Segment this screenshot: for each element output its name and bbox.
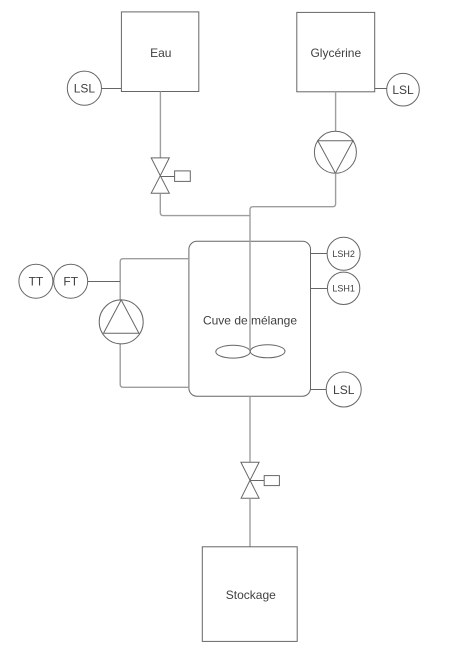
tank Stockage [202, 547, 297, 642]
instrument LSL (mixer low level) [326, 372, 361, 407]
wire LSL-Eau to tank [102, 88, 122, 90]
instrument FT (flow transmitter) [54, 264, 88, 298]
svg-text:Glycérine: Glycérine [310, 46, 361, 60]
tank Cuve de mélange [189, 241, 311, 396]
instrument LSL (Glycérine low level) [387, 73, 420, 106]
pipe Glycérine outlet to pump P2 [335, 92, 337, 132]
svg-text:Eau: Eau [150, 46, 171, 60]
svg-text:LSL: LSL [74, 82, 96, 96]
valve V2 (mixer drain valve) [241, 462, 280, 498]
tank Glycérine [297, 12, 375, 91]
wire tank Glycérine to LSL [375, 88, 387, 90]
svg-text:LSL: LSL [333, 383, 355, 397]
pipe Eau outlet to valve V1 [159, 92, 161, 158]
tank Eau [121, 12, 198, 92]
svg-text:Stockage: Stockage [226, 588, 276, 602]
pipe recirculation loop [120, 259, 189, 388]
svg-text:LSH2: LSH2 [332, 249, 355, 259]
instrument LSH1 (high level 1) [327, 272, 359, 304]
wire FT to loop [88, 281, 121, 283]
wire mixer to LSL [311, 389, 327, 391]
svg-text:TT: TT [29, 275, 44, 289]
pipe pump P2 to mixer inlet / agitator shaft [250, 173, 336, 349]
pump P1 (recirculation pump) [99, 300, 143, 344]
instrument LSL (Eau low level) [67, 71, 101, 105]
svg-text:FT: FT [63, 275, 78, 289]
pump P2 (Glycérine pump) [314, 131, 356, 173]
svg-text:LSH1: LSH1 [332, 284, 355, 294]
wire mixer to LSH2 [311, 253, 328, 255]
pipe valve V1 to junction [160, 193, 250, 215]
valve V1 (Eau feed valve) [151, 158, 190, 193]
instrument LSH2 (high level 2) [327, 237, 360, 270]
pipe mixer outlet to valve V2 [249, 396, 251, 462]
pipe valve V2 to Stockage [249, 498, 251, 547]
instrument TT (temperature transmitter) [19, 264, 53, 298]
svg-text:LSL: LSL [392, 83, 414, 97]
wire mixer to LSH1 [311, 288, 328, 290]
agitator propeller [216, 345, 250, 358]
